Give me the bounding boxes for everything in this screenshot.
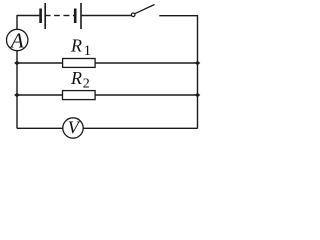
junction node B1 (right, R1 branch) — [195, 61, 201, 65]
wire R2 to right node B2 — [95, 94, 197, 96]
switch S blade arm — [135, 5, 155, 14]
wire voltmeter to bottom-right corner — [83, 127, 197, 129]
wire bottom-left to voltmeter — [17, 127, 63, 129]
wire R1 to right node B1 — [95, 62, 197, 64]
battery cell 2 short thick plate — [74, 9, 77, 24]
junction node A2 (left, R2 branch) — [14, 93, 20, 97]
svg-text:1: 1 — [84, 43, 92, 59]
battery cell 1 long thin plate — [44, 3, 46, 29]
dashed wire segment 2 — [64, 15, 70, 17]
battery cell 2 long thin plate — [80, 3, 82, 29]
wire left vertical node A1 to bottom-left corner — [16, 63, 18, 129]
wire node A2 to R2 — [17, 94, 63, 96]
svg-text:R: R — [70, 68, 82, 88]
resistor R2 body — [63, 91, 96, 100]
ammeter A circle — [7, 29, 28, 50]
junction node A1 (left, R1 branch) — [14, 61, 20, 65]
voltmeter V circle — [63, 118, 83, 138]
wire top-left horizontal — [17, 15, 39, 17]
wire ammeter to node A1 — [16, 51, 18, 63]
wire node A1 to R1 — [17, 62, 63, 64]
battery cell 1 short thick plate — [39, 9, 42, 24]
wire stub after cell 1 — [46, 15, 51, 17]
wire switch to top-right corner — [159, 15, 197, 17]
svg-text:2: 2 — [83, 76, 90, 91]
svg-text:R: R — [70, 36, 82, 56]
wire battery to switch — [82, 15, 132, 17]
wire right vertical — [197, 15, 199, 129]
svg-text:A: A — [9, 28, 24, 52]
wire stub before cell 2 — [73, 15, 74, 17]
switch S pivot circle — [131, 13, 135, 17]
resistor R1 body — [63, 59, 96, 68]
wire top-left vertical to ammeter — [16, 15, 18, 29]
junction node B2 (right, R2 branch) — [195, 93, 201, 97]
dashed wire segment 1 — [54, 15, 60, 17]
